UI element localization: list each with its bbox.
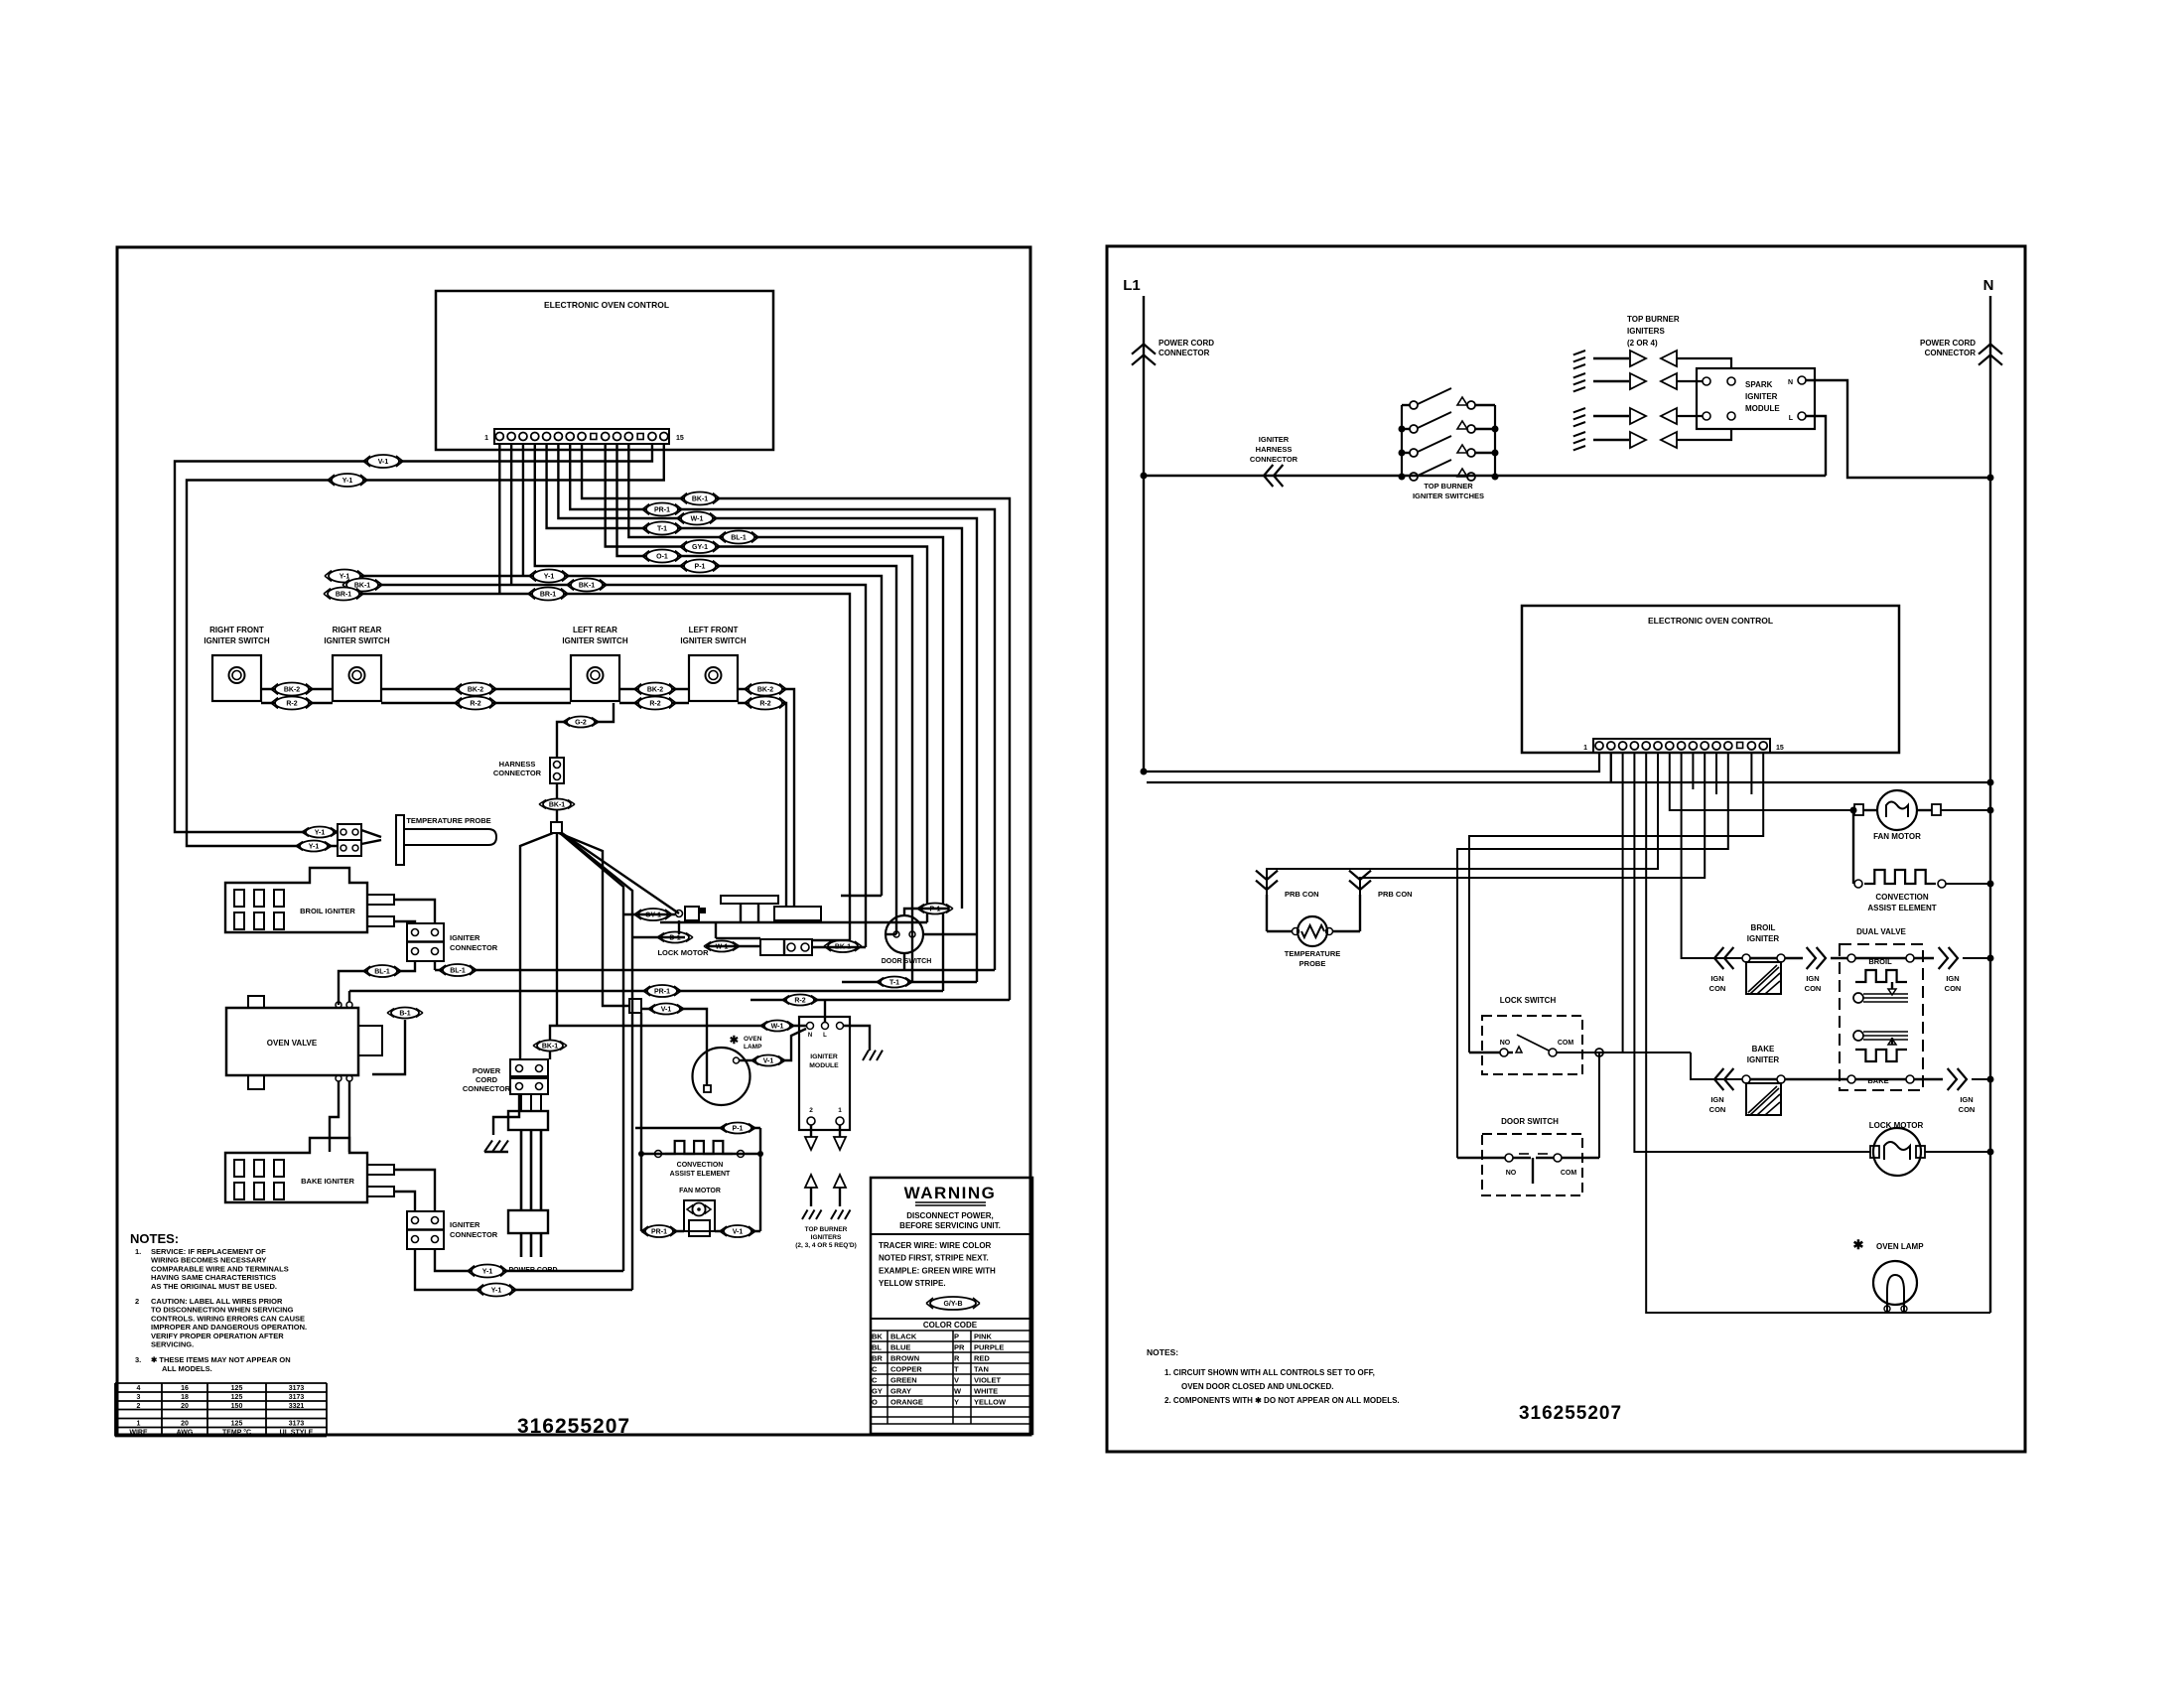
svg-text:GREEN: GREEN — [890, 1375, 917, 1384]
svg-text:1: 1 — [484, 435, 488, 442]
broil igniter (right page) — [1709, 923, 1847, 994]
ground symbol (power cord) — [484, 1094, 519, 1152]
svg-text:G-2: G-2 — [575, 720, 587, 727]
wire gauge table (left page) — [115, 1383, 327, 1437]
connector Y-1 probe upper — [302, 827, 338, 838]
wire - fan to GY vertical — [560, 833, 623, 1271]
temperature probe (left page) — [338, 815, 496, 865]
svg-text:IGNITER: IGNITER — [450, 1220, 480, 1229]
svg-text:ELECTRONIC OVEN CONTROL: ELECTRONIC OVEN CONTROL — [1648, 616, 1773, 626]
svg-text:125: 125 — [231, 1421, 243, 1428]
wire - igniter row2 to module — [1677, 380, 1703, 382]
svg-text:CAUTION: LABEL ALL WIRES: CAUTION: LABEL ALL WIRES PRIOR — [151, 1297, 283, 1306]
svg-text:IGNITER: IGNITER — [1259, 435, 1290, 444]
connector R-2 — [745, 697, 786, 710]
svg-text:O: O — [872, 1397, 878, 1406]
top burner igniters label (right page) — [1627, 315, 1680, 348]
connector BR-1 lower mid — [528, 588, 568, 601]
svg-text:1.: 1. — [135, 1247, 141, 1256]
connector BR-1 lower left — [324, 588, 363, 601]
svg-text:HAVING SAME CHARACTERISTICS: HAVING SAME CHARACTERISTICS — [151, 1273, 276, 1282]
right page border frame — [1107, 246, 2025, 1452]
svg-text:✱: ✱ — [1853, 1237, 1864, 1252]
svg-text:PROBE: PROBE — [1299, 959, 1326, 968]
svg-text:TEMP °C: TEMP °C — [222, 1429, 251, 1437]
svg-text:BK-2: BK-2 — [468, 687, 483, 694]
door switch (right page) — [1457, 1117, 1599, 1195]
wire - broil stub to connector upper — [394, 900, 435, 923]
notes text block (left page) — [130, 1231, 307, 1373]
wire - module N to N line — [1806, 380, 1994, 482]
svg-text:RIGHT FRONT: RIGHT FRONT — [209, 626, 264, 634]
svg-text:BL: BL — [872, 1342, 882, 1351]
svg-text:CON: CON — [1805, 984, 1822, 993]
svg-text:OVEN: OVEN — [744, 1036, 762, 1043]
wire - GY-1 lead — [623, 913, 675, 915]
lock switch (right page) — [1469, 996, 1582, 1074]
svg-text:3173: 3173 — [289, 1394, 305, 1401]
connector T-1 — [642, 522, 682, 535]
wire - bake connector output upper (Y-1) — [435, 1249, 623, 1271]
connector Y-1 bake lower — [477, 1284, 516, 1297]
wire - terminal 1 fan-out lower (BR-1) — [330, 444, 850, 940]
connector BL-1 — [719, 531, 758, 544]
svg-text:BL-1: BL-1 — [450, 968, 466, 975]
svg-text:TRACER WIRE: WIRE COLOR: TRACER WIRE: WIRE COLOR — [879, 1241, 992, 1250]
part number 316255207 (left page) — [517, 1415, 630, 1438]
oven lamp (right page) — [1853, 1237, 1925, 1313]
wire - t6 to probe left — [1267, 753, 1658, 923]
electronic oven control box (right page) — [1522, 606, 1899, 753]
svg-text:POWER CORD: POWER CORD — [1920, 339, 1976, 348]
connector P-1 door switch — [917, 904, 953, 914]
part number 316255207 (right page) — [1519, 1403, 1622, 1424]
svg-text:✱ THESE ITEMS MAY NOT APP: ✱ THESE ITEMS MAY NOT APPEAR ON — [151, 1355, 291, 1364]
wire - t4 to lock motor — [1634, 753, 1870, 1152]
wire - bake valve to N — [1914, 1068, 1994, 1114]
wire - switch chain to harness (G-2) — [557, 703, 614, 758]
connector Y-1 lower mid — [529, 570, 569, 583]
wire - N vertical — [1989, 296, 1991, 1313]
convection assist element (left page) — [638, 1141, 763, 1178]
svg-text:BL-1: BL-1 — [374, 969, 390, 976]
wire - t5 to oven lamp bus — [1646, 753, 1990, 1313]
svg-text:V-1: V-1 — [733, 1229, 744, 1236]
svg-text:P-1: P-1 — [733, 1126, 744, 1133]
svg-text:COPPER: COPPER — [890, 1364, 922, 1373]
svg-text:1: 1 — [137, 1421, 141, 1428]
harness connector (left page) — [493, 758, 564, 783]
fan motor (left page) — [679, 1188, 721, 1236]
svg-text:BK-1: BK-1 — [542, 1044, 558, 1051]
svg-text:V-1: V-1 — [661, 1007, 672, 1014]
PRB CON connector right — [1349, 871, 1413, 899]
svg-text:BLUE: BLUE — [890, 1342, 910, 1351]
svg-text:TOP BURNER: TOP BURNER — [1627, 315, 1680, 324]
power cord connector (left page) — [463, 1059, 548, 1094]
svg-text:R-2: R-2 — [286, 701, 297, 708]
wire - terminal 8 fan-out (BK-1) — [582, 444, 1010, 1000]
convection assist element (right page) — [1853, 810, 1994, 912]
svg-text:LEFT REAR: LEFT REAR — [573, 626, 617, 634]
power cord connector N — [1920, 339, 2002, 365]
wire - terminal 7 fan-out (PR-1) — [570, 444, 995, 970]
svg-text:15: 15 — [1776, 745, 1784, 752]
svg-text:N: N — [1983, 277, 1994, 294]
wire - fan to D vertical — [561, 833, 632, 1290]
svg-text:T-1: T-1 — [889, 980, 899, 987]
connector R-2 — [271, 697, 313, 710]
svg-text:ELECTRONIC OVEN CONTROL: ELECTRONIC OVEN CONTROL — [544, 300, 669, 310]
bake igniter (right page) — [1709, 1045, 1847, 1115]
wire - terminal 4 fan-out (P-1) — [535, 444, 896, 934]
wire - oven valve bottom drops — [330, 1081, 349, 1152]
svg-text:IGNITER: IGNITER — [1747, 1055, 1780, 1064]
svg-text:IGNITER SWITCHES: IGNITER SWITCHES — [1413, 491, 1484, 500]
svg-text:125: 125 — [231, 1394, 243, 1401]
wire - L1 vertical — [1143, 296, 1145, 772]
svg-text:2: 2 — [137, 1403, 141, 1410]
connector BK-2 — [271, 683, 313, 696]
wire - module L to bus — [1806, 416, 1826, 476]
dual valve (right page) — [1840, 927, 1923, 1090]
svg-text:IGNITER: IGNITER — [450, 933, 480, 942]
svg-text:CONNECTOR: CONNECTOR — [463, 1084, 511, 1093]
svg-text:DOOR SWITCH: DOOR SWITCH — [882, 958, 932, 965]
svg-text:Y-1: Y-1 — [342, 478, 353, 485]
wire - terminal 6 fan-out (W-1) — [558, 444, 977, 982]
door switch — [882, 915, 932, 965]
svg-text:IGNITERS: IGNITERS — [1627, 327, 1665, 336]
svg-text:Y-1: Y-1 — [315, 830, 326, 837]
svg-text:N: N — [1788, 379, 1793, 386]
wire - oven valve pin2 to PR-1 run — [348, 991, 350, 1002]
svg-text:TOP BURNER: TOP BURNER — [1424, 482, 1473, 491]
svg-text:LOCK SWITCH: LOCK SWITCH — [1500, 996, 1557, 1005]
svg-text:C: C — [872, 1375, 878, 1384]
connector B-1 — [387, 1008, 423, 1019]
svg-text:ASSIST ELEMENT: ASSIST ELEMENT — [1867, 904, 1936, 912]
wire - lock COM to door COM — [1598, 1052, 1600, 1158]
wire - module right pin to ground — [844, 1026, 883, 1060]
wire - fan to lock connector diagonal — [562, 833, 679, 913]
svg-text:SERVICE: IF REPLACEMENT OF: SERVICE: IF REPLACEMENT OF — [151, 1247, 266, 1256]
svg-text:CON: CON — [1709, 984, 1726, 993]
junction block below harness connector — [551, 822, 562, 833]
wire - W-1 lock lead — [706, 945, 760, 947]
wire - t15 to lock switch NO — [1469, 753, 1763, 1052]
svg-text:1: 1 — [838, 1107, 842, 1114]
wire - terminal 14 run to temperature probe upper — [175, 444, 652, 832]
svg-text:GRAY: GRAY — [890, 1386, 911, 1395]
svg-text:T: T — [954, 1364, 959, 1373]
svg-text:R-2: R-2 — [759, 701, 770, 708]
wire - fan straight drop to W-1 run — [556, 833, 558, 1025]
svg-text:BK-1: BK-1 — [692, 496, 708, 503]
svg-text:BK-1: BK-1 — [549, 802, 565, 809]
svg-text:FAN MOTOR: FAN MOTOR — [679, 1188, 721, 1194]
connector Y-1 lower left — [325, 570, 364, 583]
wire - lock switch COM junction — [1557, 1049, 1691, 1056]
svg-text:BROWN: BROWN — [890, 1353, 919, 1362]
connector W-1 — [677, 512, 717, 525]
connector PR-1 fan — [641, 1225, 677, 1237]
wire - broil stub to connector lower — [395, 921, 415, 923]
igniter module (left page) — [799, 1017, 850, 1130]
svg-text:SERVICING.: SERVICING. — [151, 1340, 194, 1349]
svg-text:W: W — [954, 1386, 962, 1395]
connector BK-2 — [455, 683, 496, 696]
svg-text:✱: ✱ — [730, 1035, 739, 1047]
wire - broil connector long run right (BL-1) — [435, 961, 995, 970]
svg-text:PURPLE: PURPLE — [974, 1342, 1004, 1351]
connector V-1 fan — [720, 1225, 755, 1237]
svg-text:AS THE ORIGINAL MUST BE U: AS THE ORIGINAL MUST BE USED. — [151, 1282, 277, 1291]
left page border frame — [117, 247, 1030, 1435]
connector BK-1 lower mid — [567, 579, 607, 592]
svg-text:IGNITER: IGNITER — [1745, 392, 1778, 401]
svg-text:BK-2: BK-2 — [284, 687, 300, 694]
svg-text:YELLOW: YELLOW — [974, 1397, 1007, 1406]
svg-text:IGN: IGN — [1710, 974, 1723, 983]
svg-text:2. COMPONENTS WITH ✱ DO: 2. COMPONENTS WITH ✱ DO NOT APPEAR ON AL… — [1164, 1396, 1400, 1405]
svg-text:BR-1: BR-1 — [336, 592, 351, 599]
wire - t7 to fan motor — [1670, 753, 1857, 814]
svg-text:PR: PR — [954, 1342, 965, 1351]
spark gap arrows (module outputs) — [795, 1125, 857, 1249]
wire - terminal 10 fan-out (GY-1) — [606, 444, 927, 922]
svg-text:316255207: 316255207 — [517, 1415, 630, 1438]
svg-text:3.: 3. — [135, 1355, 141, 1364]
svg-text:IGNITER SWITCH: IGNITER SWITCH — [324, 636, 389, 645]
wire - element loop rails — [641, 1013, 760, 1231]
connector GY-1 lock motor — [634, 909, 672, 920]
wire - door switch top lead — [904, 909, 949, 915]
connector T-1 — [877, 977, 912, 988]
svg-text:CONNECTOR: CONNECTOR — [450, 1230, 498, 1239]
wire - terminal 12 fan-out (BL-1) — [628, 444, 943, 991]
power cord connector L1 — [1132, 339, 1214, 365]
svg-text:BLACK: BLACK — [890, 1332, 917, 1340]
wire - terminal 5 fan-out (T-1) — [547, 444, 962, 909]
svg-text:PR-1: PR-1 — [654, 507, 670, 514]
svg-text:GY-1: GY-1 — [692, 544, 708, 551]
svg-text:N: N — [808, 1033, 812, 1039]
svg-text:L: L — [823, 1033, 827, 1039]
svg-text:TEMPERATURE: TEMPERATURE — [1285, 949, 1341, 958]
svg-text:LOCK MOTOR: LOCK MOTOR — [657, 948, 709, 957]
node L1 — [1123, 277, 1141, 294]
svg-text:Y-1: Y-1 — [482, 1269, 493, 1276]
svg-text:BAKE IGNITER: BAKE IGNITER — [301, 1177, 354, 1186]
svg-text:ORANGE: ORANGE — [890, 1397, 923, 1406]
connector BK-1 riser — [533, 1041, 567, 1052]
svg-text:COM: COM — [1558, 1040, 1574, 1047]
wire - bake stub to connector upper — [394, 1170, 435, 1211]
svg-text:CON: CON — [1945, 984, 1962, 993]
svg-text:3321: 3321 — [289, 1403, 305, 1410]
svg-text:RIGHT REAR: RIGHT REAR — [333, 626, 382, 634]
wire - module L feed from bundle — [751, 1000, 1010, 1022]
svg-text:V-1: V-1 — [763, 1058, 774, 1065]
EOC terminal strip (right page) — [1583, 739, 1784, 753]
connector O-1 — [642, 550, 682, 563]
svg-text:MODULE: MODULE — [1745, 404, 1780, 413]
svg-text:3173: 3173 — [289, 1421, 305, 1428]
svg-text:IGN: IGN — [1960, 1095, 1973, 1104]
svg-text:V-1: V-1 — [378, 459, 389, 466]
wire - fan loop bottom — [641, 1230, 760, 1232]
svg-text:PRB CON: PRB CON — [1378, 890, 1413, 899]
spark igniter module — [1697, 368, 1815, 429]
svg-text:CONNECTOR: CONNECTOR — [1250, 455, 1298, 464]
connector W-1 lock — [704, 941, 740, 952]
wire - igniter row4 to module — [1677, 429, 1731, 440]
svg-text:(2 OR 4): (2 OR 4) — [1627, 339, 1658, 348]
wire - terminal 3 fan-out lower (Y-1) — [329, 444, 882, 896]
wire - bake stub to connector lower — [395, 1192, 415, 1211]
svg-text:4: 4 — [137, 1385, 141, 1392]
svg-text:IMPROPER AND DANGEROUS OPER: IMPROPER AND DANGEROUS OPERATION. — [151, 1323, 307, 1332]
connector PR-1 — [642, 503, 682, 516]
svg-text:ALL MODELS.: ALL MODELS. — [162, 1364, 212, 1373]
svg-text:BK: BK — [872, 1332, 883, 1340]
svg-text:COM: COM — [1561, 1170, 1577, 1177]
wire - W-1 run from power cord to module N — [550, 1026, 807, 1059]
svg-text:VIOLET: VIOLET — [974, 1375, 1002, 1384]
svg-text:SPARK: SPARK — [1745, 380, 1773, 389]
svg-text:TAN: TAN — [974, 1364, 989, 1373]
connector R-2 — [634, 697, 676, 710]
svg-text:PR-1: PR-1 — [651, 1229, 667, 1236]
wire - door switch right lead — [923, 933, 977, 935]
wire - t9 stub — [1692, 753, 1694, 789]
oven lamp (left page) — [693, 1035, 763, 1105]
connector BK-1 lock — [824, 940, 862, 952]
svg-text:BK-2: BK-2 — [757, 687, 773, 694]
svg-text:NOTES:: NOTES: — [130, 1231, 179, 1246]
connector PR-1 — [643, 985, 681, 997]
wire - T-1 run — [842, 981, 977, 983]
svg-text:BL-1: BL-1 — [731, 535, 747, 542]
wire - igniter row1 to module — [1677, 358, 1731, 368]
connector BK-1 harness — [539, 799, 575, 810]
svg-text:O-1: O-1 — [656, 554, 668, 561]
connector W-1 lamp run — [760, 1021, 794, 1032]
wire - right t1 to L1 bus — [1141, 753, 1600, 775]
svg-text:R-2: R-2 — [649, 701, 660, 708]
svg-text:OVEN VALVE: OVEN VALVE — [267, 1039, 318, 1048]
svg-text:CONNECTOR: CONNECTOR — [493, 769, 542, 777]
svg-text:HARNESS: HARNESS — [499, 760, 536, 769]
svg-text:3: 3 — [137, 1394, 141, 1401]
svg-text:LAMP: LAMP — [744, 1044, 762, 1051]
igniter connector (broil) — [407, 923, 498, 961]
wire - igniter switch chain lower R-2 — [261, 703, 786, 907]
svg-text:FAN MOTOR: FAN MOTOR — [1873, 832, 1921, 841]
svg-text:RED: RED — [974, 1353, 990, 1362]
svg-text:YELLOW STRIPE.: YELLOW STRIPE. — [879, 1279, 946, 1288]
wire - terminal 15 run to temperature probe lower — [187, 444, 664, 846]
svg-text:TEMPERATURE PROBE: TEMPERATURE PROBE — [406, 816, 490, 825]
wire - P-1 feed to element loop — [635, 1127, 760, 1129]
wire - t8 to broil igniter — [1682, 753, 1742, 958]
svg-text:R-2: R-2 — [470, 701, 480, 708]
color code table — [871, 1319, 1032, 1424]
svg-text:IGN: IGN — [1946, 974, 1959, 983]
wire - door switch left lead — [886, 933, 896, 935]
warning box — [871, 1178, 1032, 1434]
svg-text:CORD: CORD — [476, 1075, 498, 1084]
connector Y-1 — [328, 474, 367, 487]
connector GY-1 — [680, 540, 720, 553]
svg-text:BAKE: BAKE — [1867, 1076, 1888, 1085]
svg-text:2: 2 — [135, 1297, 139, 1306]
connector BK-2 — [634, 683, 676, 696]
wire - door switch bottom stub — [903, 953, 905, 970]
svg-text:CON: CON — [1709, 1105, 1726, 1114]
connector G/Y-B example oval — [926, 1297, 980, 1310]
svg-text:316255207: 316255207 — [1519, 1403, 1622, 1424]
svg-text:MODULE: MODULE — [809, 1062, 839, 1069]
svg-text:Y: Y — [954, 1397, 959, 1406]
svg-text:G/Y-B: G/Y-B — [943, 1301, 962, 1308]
connector P-1 convection — [720, 1123, 755, 1134]
wire - D-1 lead — [632, 920, 685, 937]
EOC terminal strip with 15 pins (left page) — [484, 429, 684, 444]
svg-text:PR-1: PR-1 — [654, 989, 670, 996]
connector V-1 middle — [648, 1004, 684, 1015]
broil igniter — [225, 868, 394, 932]
svg-text:WIRING BECOMES NECESSARY: WIRING BECOMES NECESSARY — [151, 1256, 266, 1265]
svg-text:AWG: AWG — [177, 1430, 194, 1437]
temperature probe (right page) — [1267, 895, 1360, 968]
svg-text:C: C — [872, 1364, 878, 1373]
wire - igniter row3 to module — [1677, 415, 1703, 417]
svg-text:NO: NO — [1506, 1170, 1517, 1177]
svg-text:TO DISCONNECTION WHEN SERVI: TO DISCONNECTION WHEN SERVICING — [151, 1306, 294, 1315]
svg-text:Y-1: Y-1 — [544, 574, 555, 581]
svg-text:W-1: W-1 — [771, 1024, 784, 1031]
connector V-1 lamp — [751, 1055, 785, 1066]
wire - V-1 run to oven lamp — [641, 1009, 707, 1085]
svg-text:IGNITER SWITCH: IGNITER SWITCH — [680, 636, 746, 645]
connector BL-1 right — [439, 964, 477, 976]
svg-text:(2, 3, 4 OR 5 REQ'D): (2, 3, 4 OR 5 REQ'D) — [795, 1242, 857, 1249]
svg-text:B-1: B-1 — [399, 1011, 410, 1018]
top burner igniter switches bank — [1399, 388, 1499, 500]
svg-text:PRB CON: PRB CON — [1285, 890, 1319, 899]
svg-text:DISCONNECT POWER,: DISCONNECT POWER, — [906, 1211, 994, 1220]
svg-text:OVEN LAMP: OVEN LAMP — [1876, 1242, 1924, 1251]
svg-text:BR: BR — [872, 1353, 883, 1362]
svg-text:IGNITER: IGNITER — [810, 1053, 838, 1060]
wire - igniter switch chain upper BK-2 — [261, 689, 794, 907]
svg-text:BK-1: BK-1 — [579, 583, 595, 590]
svg-text:150: 150 — [231, 1403, 243, 1410]
svg-text:BROIL: BROIL — [1751, 923, 1776, 932]
svg-text:POWER: POWER — [473, 1066, 501, 1075]
svg-text:IGNITERS: IGNITERS — [811, 1234, 842, 1241]
svg-text:P: P — [954, 1332, 959, 1340]
wire - neutral cross bus — [1147, 753, 1994, 786]
svg-text:CONVECTION: CONVECTION — [1875, 893, 1929, 902]
svg-text:1: 1 — [1583, 745, 1587, 752]
wire - harness connector drop — [556, 783, 558, 822]
svg-text:20: 20 — [181, 1403, 189, 1410]
svg-text:CONNECTOR: CONNECTOR — [1159, 349, 1210, 357]
svg-text:W-1: W-1 — [691, 516, 704, 523]
